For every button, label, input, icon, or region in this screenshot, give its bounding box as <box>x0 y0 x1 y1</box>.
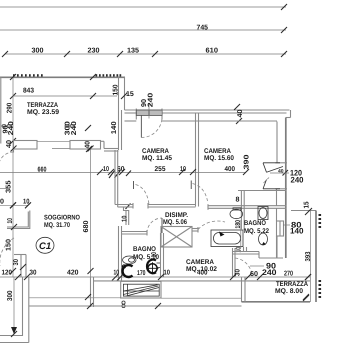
svg-text:10: 10 <box>114 270 120 277</box>
svg-text:15: 15 <box>304 201 311 208</box>
svg-text:8: 8 <box>236 197 240 204</box>
door hatched bar <box>136 110 162 116</box>
svg-text:255: 255 <box>155 166 166 173</box>
closet bottom line camera15.60 <box>238 190 287 192</box>
svg-text:180: 180 <box>235 220 242 229</box>
small fixture dots terrazza <box>2 125 74 128</box>
terrazza 8.00 left wall <box>242 277 246 302</box>
right parapet hatch upper <box>319 214 322 228</box>
bathtub <box>211 230 243 247</box>
bidet bagno 5.22 <box>259 233 268 245</box>
bagno 5.22 bottom wall <box>233 236 283 258</box>
door terrazza-camera11.45 jambs <box>136 109 162 120</box>
room label camera 10.02 <box>186 259 217 273</box>
right side balcony ledge <box>291 211 316 303</box>
svg-text:240: 240 <box>8 121 15 135</box>
dim 15 right <box>304 201 312 215</box>
dim 140 vertical <box>111 121 118 134</box>
svg-text:MQ. 31.70: MQ. 31.70 <box>44 222 70 229</box>
door label 90/240 terrazza8 <box>235 261 278 277</box>
window 80/140 right wall <box>277 220 305 236</box>
terrazza bottom wall block 1 <box>11 141 38 152</box>
svg-text:843: 843 <box>23 87 34 94</box>
svg-text:BAGNO: BAGNO <box>133 246 156 253</box>
svg-text:10: 10 <box>23 199 30 206</box>
hinge dots under stairs <box>122 301 125 308</box>
svg-text:10: 10 <box>7 218 14 224</box>
dim 15 tick <box>121 91 134 99</box>
svg-text:140: 140 <box>111 121 118 134</box>
svg-text:300: 300 <box>32 48 44 55</box>
svg-text:135: 135 <box>127 48 139 55</box>
svg-text:355: 355 <box>6 180 13 193</box>
door leaf camera11.45 <box>140 116 142 138</box>
door dim stem <box>148 104 150 119</box>
svg-text:TERRAZZA: TERRAZZA <box>276 281 308 288</box>
svg-text:CAMERA: CAMERA <box>142 148 169 155</box>
door leaf camera11.45 bottom <box>133 181 135 189</box>
svg-text:TERRAZZA: TERRAZZA <box>27 102 58 109</box>
svg-text:30: 30 <box>13 259 20 266</box>
bagno 5.10 divider wall <box>161 233 164 277</box>
label C1 <box>36 237 54 253</box>
room label terrazza 8.00 <box>275 281 308 295</box>
svg-text:10: 10 <box>180 166 186 173</box>
svg-text:240: 240 <box>291 175 305 184</box>
svg-text:150: 150 <box>6 239 13 251</box>
svg-text:240: 240 <box>262 268 277 277</box>
svg-text:400: 400 <box>225 166 236 173</box>
room label disimp <box>163 212 188 226</box>
svg-text:400: 400 <box>197 270 208 277</box>
bagno 5.10 top wall <box>122 230 148 236</box>
dim 40 left <box>6 140 13 148</box>
svg-text:MQ. 11.45: MQ. 11.45 <box>142 155 172 162</box>
terrazza 23.59 parapet hatch right <box>96 74 122 76</box>
svg-text:15: 15 <box>126 91 134 98</box>
left outer wall going down <box>0 277 29 343</box>
window label 300/240 <box>65 121 78 135</box>
terrazza left edge line <box>0 77 2 144</box>
svg-text:CAMERA: CAMERA <box>186 259 214 266</box>
terrazza right wall (double) <box>119 77 125 150</box>
wall piece lower-left soggiorno <box>14 255 26 278</box>
door arc camera 10.02 <box>198 221 225 230</box>
shaft x-box <box>161 227 192 248</box>
svg-text:30: 30 <box>30 270 37 277</box>
dim 300 vertical left <box>7 277 17 337</box>
door arc camera11.45 bottom <box>136 185 150 205</box>
camera 10.02 right wall <box>233 248 236 277</box>
dim line rooms 10/60/255/10/400 <box>0 166 249 209</box>
door arc bagno 5.10 <box>147 218 162 233</box>
camera 11.45 bottom wall <box>115 203 196 209</box>
pillar wall L <box>7 211 30 231</box>
wall between cameras <box>196 113 199 207</box>
svg-text:140: 140 <box>290 227 304 236</box>
door arc camera11.45 top <box>141 118 162 138</box>
camera 15.60 bottom wall / bagno top <box>208 204 287 210</box>
svg-text:680: 680 <box>83 220 90 232</box>
dim 843 <box>10 74 117 99</box>
svg-text:40: 40 <box>278 168 284 174</box>
right outer wall <box>286 110 291 258</box>
top wall right block (double) <box>125 110 290 113</box>
svg-text:745: 745 <box>197 25 209 32</box>
walkway top wall <box>93 280 310 282</box>
soggiorno/disimp dividing wall <box>115 150 122 281</box>
svg-text:610: 610 <box>206 48 219 55</box>
svg-text:120: 120 <box>2 270 13 277</box>
room label bagno 5.22 <box>244 220 269 235</box>
svg-text:300: 300 <box>7 290 14 301</box>
svg-text:MQ. 8.00: MQ. 8.00 <box>275 288 303 295</box>
svg-text:270: 270 <box>284 270 293 277</box>
svg-text:393: 393 <box>305 251 312 261</box>
svg-text:DISIMP.: DISIMP. <box>165 212 188 219</box>
terrazza 23.59 top wall <box>0 76 125 78</box>
dimension line overall top <box>0 4 287 10</box>
bagno 5.22 left wall <box>241 191 244 231</box>
disimp-camera10.02 wall <box>192 227 198 233</box>
svg-text:C1: C1 <box>39 241 51 252</box>
window sill lines <box>37 140 70 142</box>
svg-text:230: 230 <box>88 48 100 55</box>
french door 120/240 right wall <box>263 163 304 189</box>
svg-text:MQ. 15.60: MQ. 15.60 <box>204 155 234 162</box>
dim 150 vertical <box>113 84 120 95</box>
wall stub notch below soggiorno wall <box>118 207 129 225</box>
right parapet hatch lower <box>319 280 322 298</box>
svg-text:40: 40 <box>85 141 92 149</box>
svg-text:10: 10 <box>103 166 109 173</box>
svg-text:290: 290 <box>6 103 13 114</box>
door arc terrazza-soggiorno <box>0 152 14 167</box>
door label 90/240 top <box>141 93 155 108</box>
dimension line 745 <box>0 25 287 33</box>
terrazza 23.59 parapet hatch left <box>13 74 43 76</box>
room label camera 11.45 <box>142 148 172 162</box>
dim 40 step <box>85 125 93 152</box>
room label terrazza 23.59 <box>27 102 59 116</box>
washbasin bagno 5.10 <box>147 260 160 274</box>
svg-text:30: 30 <box>235 269 242 276</box>
stairs block <box>121 281 161 298</box>
toilet bagno 5.10 <box>123 256 136 264</box>
dim 180 vertical tub <box>235 220 243 253</box>
door label 90/240 left <box>3 121 16 135</box>
left dim line vertical 290/355/150 <box>6 74 17 277</box>
terrazza bottom wall block 2 <box>70 141 101 150</box>
dim 680 vertical soggiorno <box>83 146 94 278</box>
svg-text:40: 40 <box>6 140 13 148</box>
svg-text:390: 390 <box>244 154 251 169</box>
svg-text:40: 40 <box>237 109 244 117</box>
svg-text:MQ. 5.06: MQ. 5.06 <box>163 219 187 226</box>
dashed arc soggiorno door left <box>0 238 14 266</box>
svg-text:170: 170 <box>137 270 146 277</box>
svg-text:240: 240 <box>71 121 78 135</box>
door arc camera15.60 bottom <box>190 181 192 190</box>
svg-text:150: 150 <box>113 84 120 95</box>
svg-text:0: 0 <box>0 199 4 206</box>
inner wall line top <box>125 120 137 122</box>
svg-text:10: 10 <box>121 215 128 222</box>
room label soggiorno <box>44 214 80 229</box>
svg-text:CAMERA: CAMERA <box>204 148 231 155</box>
terrazza 8.00 bottom wall <box>242 295 311 302</box>
dimension line 300 230 135 610 <box>2 48 287 57</box>
dim 390 vertical <box>244 154 251 169</box>
svg-text:SOGGIORNO: SOGGIORNO <box>44 214 80 221</box>
column marker circle-plus <box>147 262 159 274</box>
entrance hook symbol <box>122 265 132 277</box>
svg-text:660: 660 <box>38 166 47 173</box>
walkway bottom lines <box>29 298 242 309</box>
dim line 10/10 pillar <box>0 189 31 209</box>
svg-text:10: 10 <box>151 252 158 258</box>
closet line camera 15.60 <box>162 121 277 258</box>
step to right wall <box>101 141 119 151</box>
sink bagno 5.22 <box>258 207 268 220</box>
walkway side walls <box>85 277 94 309</box>
bottom dim line 120/30/420/10/170/10/400/60/270 <box>0 270 311 281</box>
svg-text:BAGNO: BAGNO <box>244 220 266 227</box>
svg-text:420: 420 <box>67 270 79 277</box>
toilet bagno 5.22 <box>230 208 243 219</box>
room label bagno 5.10 <box>133 246 159 261</box>
room label camera 15.60 <box>204 148 234 162</box>
svg-text:10: 10 <box>164 270 171 277</box>
bottom right corner ticks <box>303 274 311 300</box>
svg-text:MQ. 23.59: MQ. 23.59 <box>27 109 59 116</box>
svg-text:240: 240 <box>148 93 155 108</box>
svg-text:60: 60 <box>250 271 258 278</box>
dim 40 top right wall <box>234 104 244 124</box>
door arc camera10.02-terrace <box>235 258 252 276</box>
